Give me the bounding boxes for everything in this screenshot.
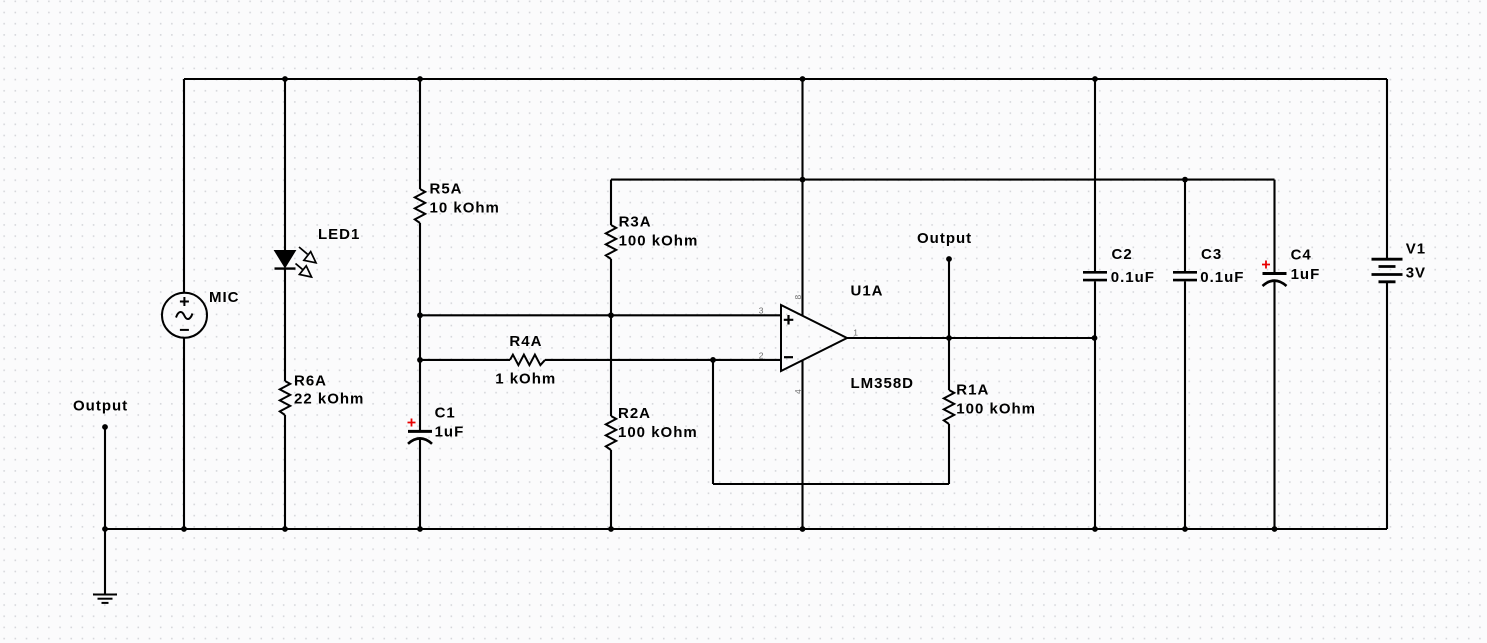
svg-text:C4: C4 [1291,247,1312,264]
svg-text:1uF: 1uF [1291,266,1321,283]
junction bottom rail / MIC [181,526,187,532]
wire R6A to rail [284,415,286,529]
ground [93,595,117,603]
wire R3A top lead [610,180,612,225]
wire feedback bottom horizontal [713,483,949,485]
resistor R3A [606,225,616,259]
wire LED to R6A [284,269,286,382]
svg-text:C3: C3 [1201,246,1222,263]
svg-text:1uF: 1uF [435,423,465,440]
wire inverting input left segment [420,359,510,361]
wire C3 branch lower [1184,281,1186,529]
junction bottom rail / R6A [282,526,288,532]
svg-text:R3A: R3A [619,214,652,231]
svg-text:R2A: R2A [618,405,651,422]
svg-text:100 kOhm: 100 kOhm [619,233,699,250]
wire op-amp V- supply (pin 4) [801,360,803,529]
svg-text:3V: 3V [1406,265,1426,282]
svg-text:22 kOhm: 22 kOhm [294,391,364,408]
node Output (op-amp) [946,256,952,262]
wire mid distribution rail [611,179,1275,181]
junction top rail / C2 branch [1092,76,1098,82]
wire op-amp V+ supply (pin 8) [801,79,803,316]
svg-text:R6A: R6A [294,373,327,390]
wire R3A-R2A middle [610,259,612,416]
svg-text:R5A: R5A [430,181,463,198]
wire R1A lower lead [948,424,950,484]
LED LED1 [275,247,317,277]
wire ground stem [104,529,106,594]
wire V1 branch upper [1386,79,1388,259]
svg-text:1 kOhm: 1 kOhm [495,370,556,387]
svg-text:C2: C2 [1112,246,1133,263]
wire left output stub [104,427,106,529]
svg-text:4: 4 [793,389,803,394]
junction top rail / supply [800,76,806,82]
wire C1 to rail [419,439,421,529]
wire noninverting input (pin 3) [420,314,781,316]
wire LED branch upper [284,79,286,251]
capacitor C4 (electrolytic) [1262,261,1287,287]
wire op-amp output (pin 1) [847,337,1094,339]
junction bottom rail / C1 [417,526,423,532]
svg-text:R4A: R4A [509,333,542,350]
junction bottom rail / left stub [102,526,108,532]
resistor R4A [510,355,545,365]
wire V1 branch lower [1386,282,1388,529]
junction pin2 line / bias node [417,357,423,363]
junction top rail / R5A branch [417,76,423,82]
junction pin3 line / R3A-R2A [608,312,614,318]
wire C4 branch upper [1273,180,1275,272]
microphone source MIC [162,293,207,338]
resistor R5A [415,189,425,223]
wire inverting input right segment (pin 2) [545,359,781,361]
wire MIC branch lower [183,338,185,529]
wire MIC branch upper [183,79,185,293]
junction top rail / LED branch [282,76,288,82]
resistor R6A [280,381,290,415]
junction bottom rail / C4 [1272,526,1278,532]
junction pin2 line / feedback [710,357,716,363]
svg-text:LED1: LED1 [318,226,360,243]
svg-text:1: 1 [853,328,858,338]
wire R1A upper lead [948,338,950,390]
svg-text:R1A: R1A [956,381,989,398]
wire R5A to C1 [419,223,421,430]
junction mid rail / C3 branch [1182,177,1188,183]
capacitor C1 (electrolytic) [408,419,433,444]
svg-text:LM358D: LM358D [851,375,915,392]
battery V1 [1372,259,1403,282]
svg-text:C1: C1 [435,404,456,421]
svg-text:V1: V1 [1406,240,1426,257]
wire bottom ground rail [105,528,1387,530]
svg-text:100 kOhm: 100 kOhm [618,424,698,441]
capacitor C2 [1083,272,1107,280]
junction bottom rail / supply [800,526,806,532]
svg-text:Output: Output [73,397,128,414]
svg-text:8: 8 [793,295,803,300]
junction output line / C2 branch [1092,335,1098,341]
wire output stub [948,259,950,338]
junction output line / R1A stub [946,335,952,341]
svg-text:10 kOhm: 10 kOhm [430,200,500,217]
svg-text:MIC: MIC [209,289,240,306]
svg-text:2: 2 [759,350,764,360]
svg-text:0.1uF: 0.1uF [1111,269,1155,286]
wire top V+ rail [184,78,1387,80]
wire R5A branch top [419,79,421,189]
junction mid rail / supply [800,177,806,183]
svg-text:0.1uF: 0.1uF [1200,269,1244,286]
wire feedback vertical from pin 2 [712,360,714,484]
junction bottom rail / C3 [1182,526,1188,532]
junction bottom rail / R2A [608,526,614,532]
svg-text:3: 3 [759,306,764,316]
capacitor C3 [1173,272,1197,280]
resistor R1A [944,390,954,424]
junction bottom rail / C2 [1092,526,1098,532]
node Output (left) [102,424,108,430]
wire C2 branch upper [1094,79,1096,271]
op-amp U1A [781,305,847,371]
wire C3 branch upper [1184,180,1186,271]
svg-text:Output: Output [917,230,972,247]
resistor R2A [606,416,616,450]
svg-text:U1A: U1A [851,282,884,299]
wire C2 branch lower [1094,281,1096,529]
junction pin3 line / bias node [417,312,423,318]
wire R2A to rail [610,450,612,529]
svg-text:100 kOhm: 100 kOhm [956,400,1036,417]
wire C4 branch lower [1273,281,1275,529]
